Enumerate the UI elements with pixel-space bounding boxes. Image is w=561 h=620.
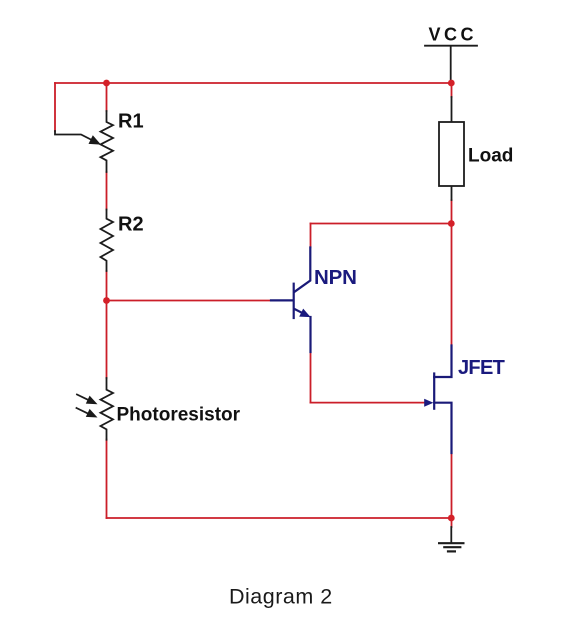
svg-text:Load: Load <box>468 146 513 167</box>
svg-text:NPN: NPN <box>314 266 357 289</box>
svg-text:JFET: JFET <box>458 357 505 379</box>
svg-text:Photoresistor: Photoresistor <box>117 405 241 426</box>
svg-text:Diagram 2: Diagram 2 <box>229 585 333 609</box>
svg-text:VCC: VCC <box>429 25 478 45</box>
svg-text:R2: R2 <box>118 214 144 236</box>
svg-text:R1: R1 <box>118 111 144 133</box>
